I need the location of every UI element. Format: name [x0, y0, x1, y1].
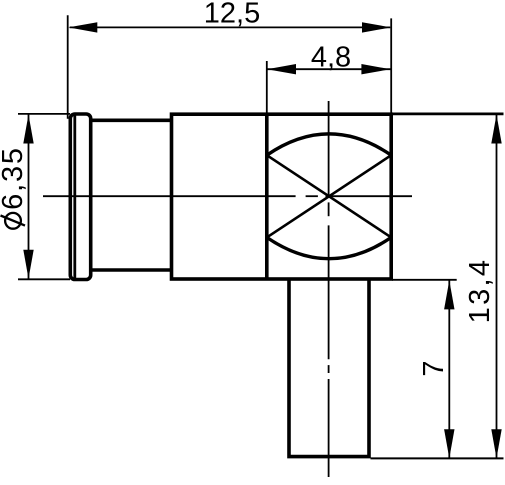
dimension dia 6,35 line [28, 114, 30, 279]
horizontal centerline [43, 195, 412, 197]
diameter symbol slash [1, 216, 26, 226]
dimension dia 6,35 extension line bottom [18, 278, 70, 280]
dimension 13,4 line [496, 114, 498, 458]
main body rectangle [172, 114, 392, 279]
dimension 13,4 arrow up [491, 115, 501, 144]
dimension 4,8 line [267, 68, 391, 70]
dimension dia 6,35 arrow up [23, 115, 33, 144]
svg-text:4,8: 4,8 [311, 42, 351, 74]
lens bottom arc [267, 237, 391, 258]
svg-text:12,5: 12,5 [204, 0, 260, 30]
dimension 13,4 extension line top [392, 113, 504, 116]
cross diagonal 2 [267, 155, 391, 237]
cap inner edge line [73, 115, 76, 279]
dimension 12,5 / 4,8 extension line right [390, 18, 392, 114]
svg-text:6,35: 6,35 [0, 146, 29, 210]
dimension 4,8 arrow left [267, 64, 296, 74]
dimension 12,5 extension line left [67, 15, 69, 119]
cross diagonal 1 [267, 155, 391, 237]
svg-text:7: 7 [418, 360, 450, 376]
dimension 12,5 line [70, 26, 391, 28]
dimension 13,4 arrow down [491, 429, 501, 458]
lens top arc [267, 134, 391, 155]
barrel top edge [91, 119, 172, 123]
dimension 12,5 arrow left [68, 22, 97, 32]
dimension 4,8 arrow right [361, 64, 390, 74]
cable stub outline [289, 279, 369, 457]
dimension 4,8 extension line left [266, 61, 268, 114]
vertical centerline [328, 101, 330, 477]
body section divider [265, 114, 269, 279]
dimension 7 line [448, 280, 450, 458]
dimension 13,4 / 7 extension line bottom [371, 457, 504, 459]
dimension dia 6,35 extension line top [18, 113, 70, 115]
dimension 7 arrow down [444, 429, 454, 458]
svg-text:13,4: 13,4 [464, 258, 496, 324]
coupling cap outline (left end) [70, 114, 90, 280]
dimension 12,5 arrow right [362, 22, 391, 32]
dimension dia 6,35 arrow down [23, 250, 33, 279]
dimension 7 extension line top [392, 279, 457, 281]
diameter symbol circle [5, 213, 21, 229]
dimension 7 arrow up [444, 280, 454, 309]
barrel bottom edge [91, 268, 172, 272]
